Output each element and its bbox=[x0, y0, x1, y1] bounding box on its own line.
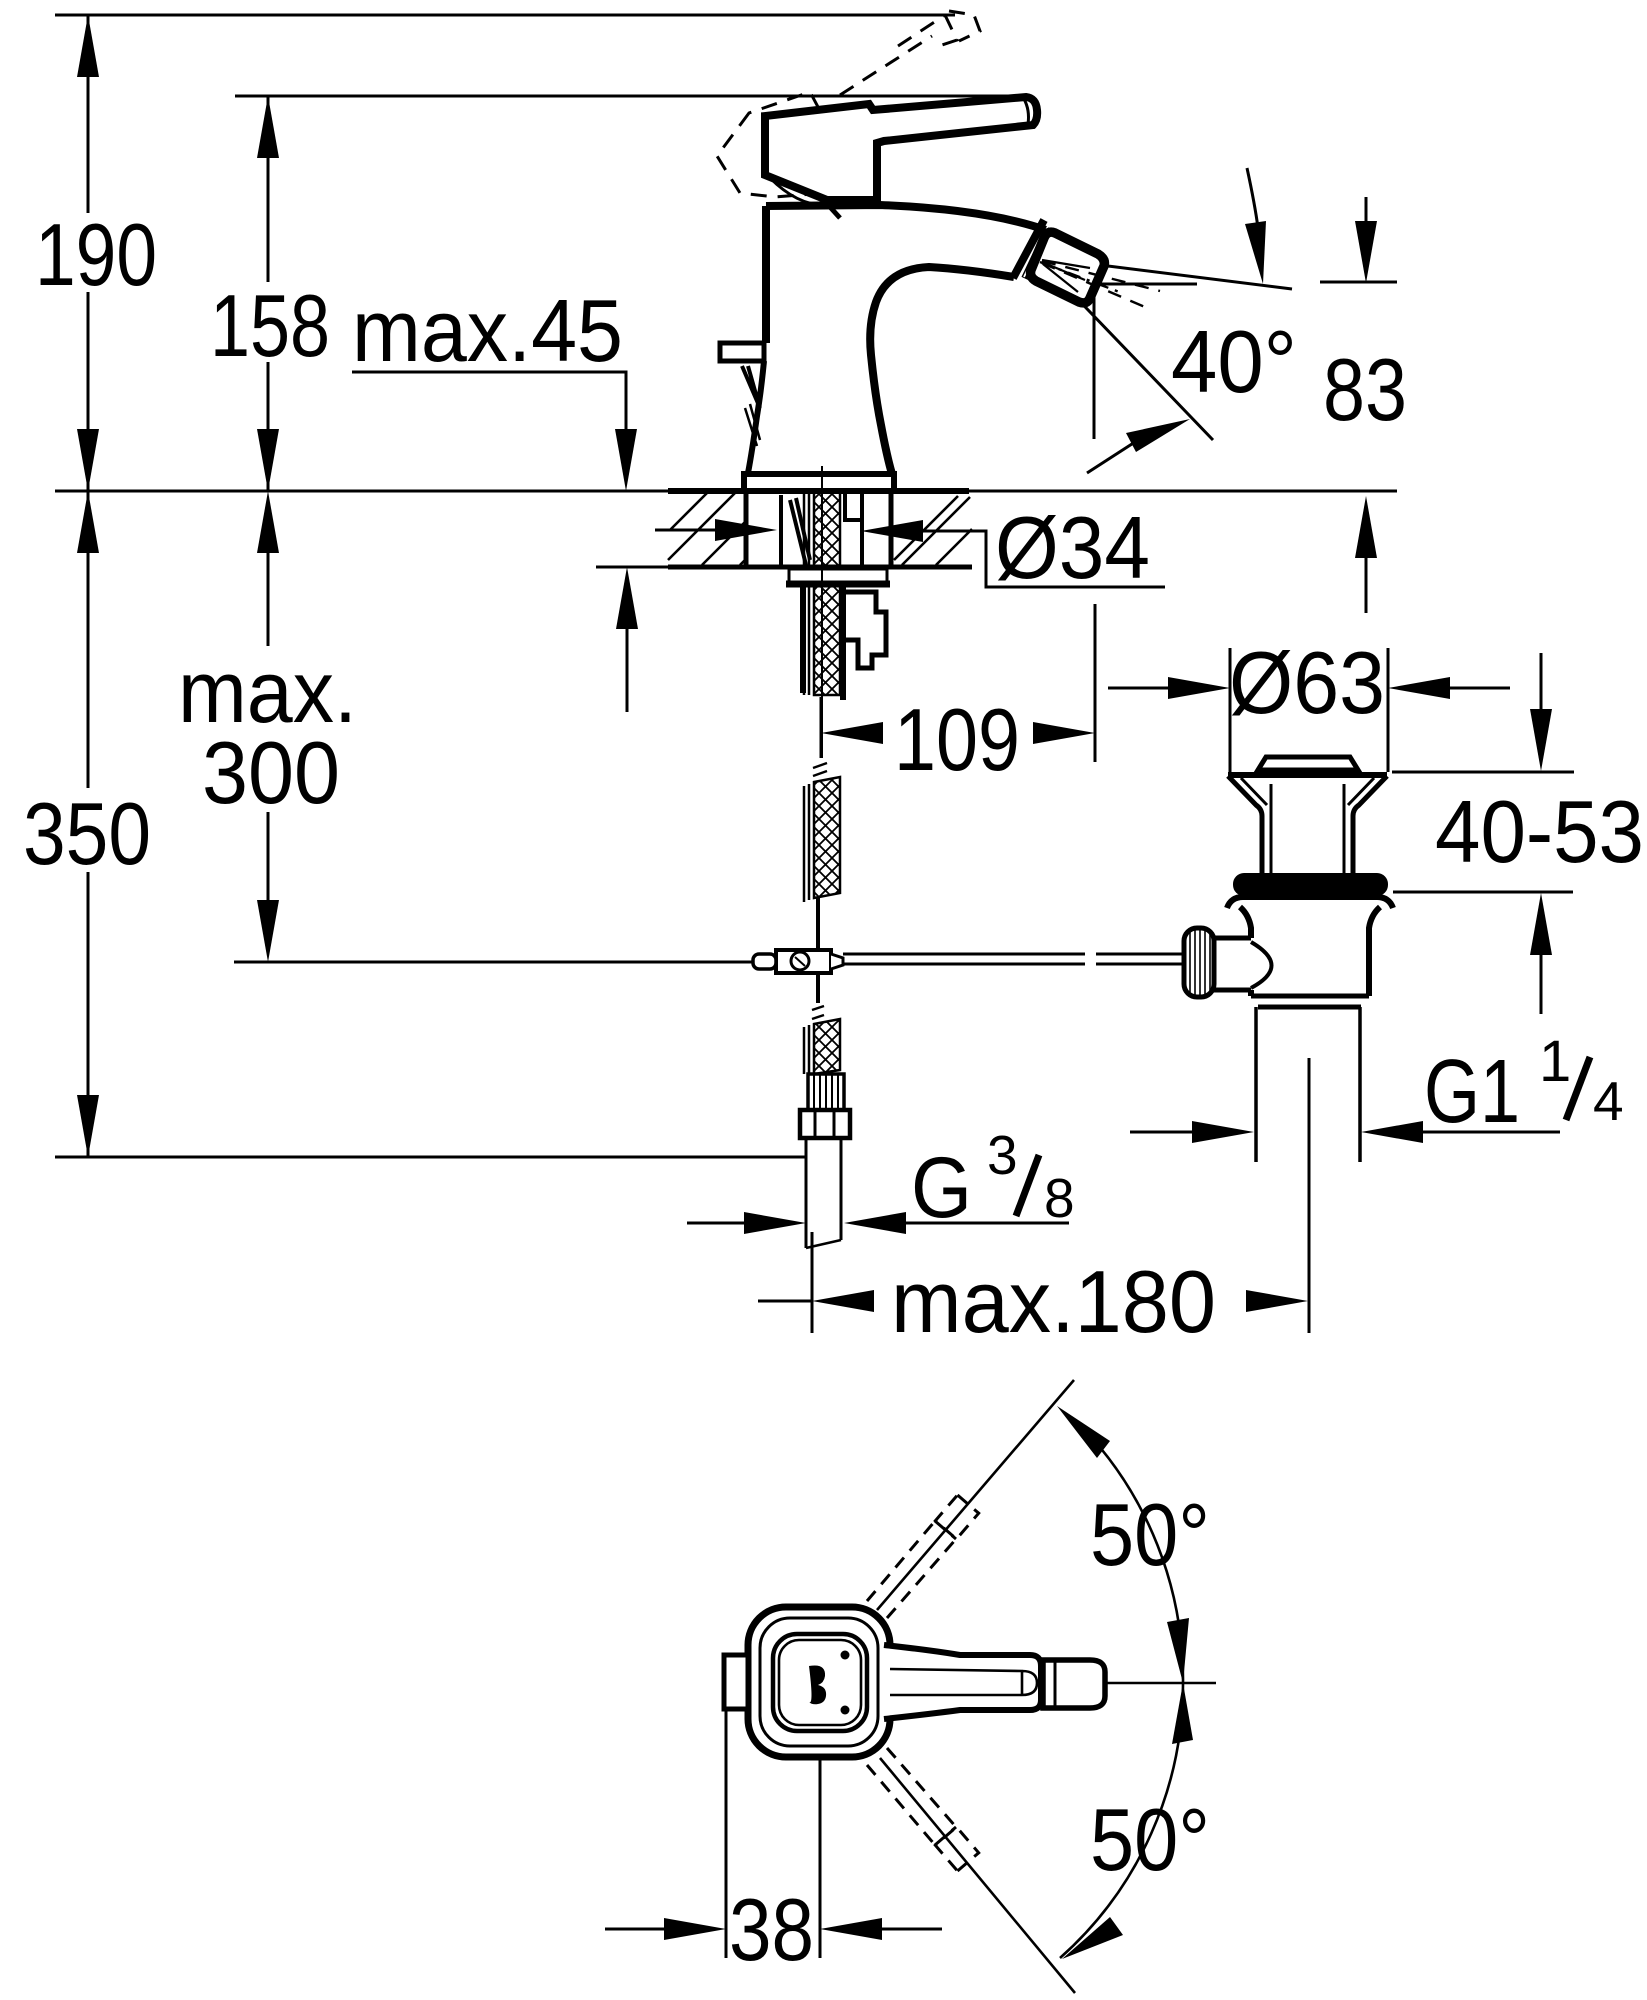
braided hose segment A bbox=[804, 784, 809, 902]
countertop hole right wall bbox=[889, 491, 894, 567]
dimension 40-53 bottom arrow bbox=[1530, 893, 1552, 955]
mousseur spray head block bbox=[1031, 232, 1105, 303]
dimension 350 arrow down bbox=[77, 1095, 99, 1157]
dimension O63 left tick bbox=[1229, 648, 1232, 772]
drain flange neck left bbox=[1228, 776, 1262, 874]
lever end cap inner line bbox=[1024, 99, 1029, 124]
hose tail bbox=[806, 1138, 841, 1248]
dimension 350 vertical line bbox=[87, 491, 90, 788]
dimension max300 arrow down bbox=[257, 900, 279, 962]
svg-text:38: 38 bbox=[729, 1880, 814, 1979]
dimension max300 arrow up at countertop bbox=[257, 491, 279, 553]
dimension max180 right tick (drain centerline) bbox=[1308, 1058, 1311, 1333]
dimension G38 right arrow bbox=[844, 1212, 906, 1234]
dimension 40-53 top arrow bbox=[1540, 653, 1543, 712]
mounting washer plate bbox=[789, 569, 887, 584]
clamp wedge below clip bbox=[742, 366, 760, 408]
dimension 38 right arrow bbox=[820, 1918, 882, 1940]
svg-text:158: 158 bbox=[210, 276, 330, 375]
svg-text:1: 1 bbox=[1539, 1029, 1571, 1094]
dimension max300 vertical line bbox=[267, 553, 270, 646]
top view: screw hole bottom bbox=[841, 1706, 850, 1715]
base flange bbox=[744, 474, 894, 491]
drain flange top bbox=[1228, 772, 1387, 778]
top view: dashed lever upper bbox=[867, 1495, 979, 1618]
top view: lever arm bbox=[884, 1645, 1041, 1719]
dimension 83 bottom arrow to countertop bbox=[1355, 496, 1377, 558]
faucet centerline below deck bbox=[821, 466, 823, 758]
svg-text:83: 83 bbox=[1323, 340, 1407, 439]
reference line L1 top of handle bbox=[55, 14, 955, 17]
top view: ring 2 bbox=[760, 1618, 878, 1746]
top view: lower 50deg line bbox=[880, 1758, 1075, 1993]
dimension G114 left arrow bbox=[1130, 1131, 1192, 1134]
spray axis vertical tick for 109 bbox=[1094, 604, 1097, 762]
clamp screws in hole bbox=[781, 495, 810, 565]
countertop hatching right of hole bbox=[894, 496, 972, 565]
spout end face bbox=[1013, 220, 1044, 278]
svg-text:G: G bbox=[911, 1140, 972, 1236]
top view: screw hole top bbox=[841, 1651, 850, 1660]
clamp left pin bbox=[753, 954, 776, 969]
dimension 158 vertical line bbox=[267, 96, 270, 282]
dimension 40-53 lower ref line bbox=[1393, 891, 1573, 894]
inner boss arc bbox=[1251, 942, 1272, 988]
dimension 83 top arrow on spray line bbox=[1365, 197, 1368, 230]
drain centerline bbox=[1308, 1058, 1311, 1232]
svg-text:G1: G1 bbox=[1424, 1042, 1520, 1142]
top view: dashed lever lower bbox=[867, 1748, 979, 1871]
40deg horizontal leg bbox=[1094, 283, 1197, 286]
top view: GROHE mark bbox=[809, 1665, 826, 1704]
dimension 38 left arrow bbox=[605, 1928, 664, 1931]
drain push cap bbox=[1258, 757, 1358, 770]
spray vertex fan (inside block) bbox=[1042, 260, 1090, 292]
dimension O34 right arrow and stepped leader bbox=[861, 520, 923, 542]
bowtie arrowhead below axis bbox=[1172, 1683, 1193, 1744]
svg-text:40°: 40° bbox=[1171, 312, 1297, 411]
dimension 158 arrow up bbox=[257, 96, 279, 158]
pop-up rod behind column bbox=[745, 404, 760, 446]
mousseur joint band bbox=[1026, 228, 1050, 279]
rod break marks above hose bbox=[813, 763, 827, 776]
drain body left edge bbox=[1240, 907, 1251, 996]
rod break marks bbox=[812, 1006, 824, 1019]
faucet body outline bbox=[766, 205, 1046, 230]
svg-text:190: 190 bbox=[35, 205, 157, 304]
drain flange neck right bbox=[1353, 776, 1387, 874]
countertop bottom surface line bbox=[596, 566, 668, 569]
svg-text:max.180: max.180 bbox=[891, 1252, 1216, 1351]
spout underside and column right edge bbox=[870, 267, 1014, 474]
dimension max45 underline and leader bbox=[352, 372, 626, 430]
handle body with lever (solid) bbox=[765, 97, 1037, 200]
dimension max180 right arrow bbox=[1246, 1290, 1308, 1312]
drain body bottom steps bbox=[1251, 996, 1369, 1007]
reference line max300 bottom (pop-up rod level) bbox=[234, 961, 753, 964]
svg-text:3: 3 bbox=[987, 1124, 1018, 1186]
svg-text:50°: 50° bbox=[1090, 1790, 1210, 1889]
shank tube walls below washer bbox=[803, 587, 843, 700]
countertop thickness arrow up below slab bbox=[616, 567, 638, 629]
top view: ring 3 bbox=[773, 1634, 867, 1731]
svg-text:40-53: 40-53 bbox=[1435, 782, 1644, 881]
dimension 109 right arrow at spray axis bbox=[1033, 722, 1095, 744]
svg-text:Ø34: Ø34 bbox=[995, 498, 1150, 597]
bottom reference line 350 bbox=[55, 1156, 806, 1159]
spray upper boundary sloped line bbox=[1044, 258, 1292, 289]
dimension 350 arrow up at countertop bbox=[77, 491, 99, 553]
dimension 109 left arrow at faucet axis bbox=[821, 722, 883, 744]
supply rod below shank bbox=[820, 697, 823, 758]
column left edge flare bbox=[748, 361, 764, 473]
threaded shank (braided pattern) bbox=[814, 491, 840, 695]
dashed handle lever (raised position) bbox=[840, 11, 980, 95]
joint band white slits bbox=[1024, 226, 1052, 279]
knob stem bbox=[1214, 938, 1251, 990]
dimension O63 right tick bbox=[1387, 648, 1390, 772]
40deg vertical leg bbox=[1093, 284, 1096, 439]
dimension 38 right tick bbox=[819, 1757, 822, 1958]
top view: spout stub left bbox=[724, 1655, 748, 1709]
top view: upper 50deg arc bbox=[1082, 1427, 1183, 1683]
braided hose segment B bbox=[804, 1025, 809, 1074]
dimension 83 tick on spray line bbox=[1320, 281, 1397, 284]
svg-text:109: 109 bbox=[894, 690, 1020, 789]
hose collar ridged bbox=[808, 1074, 844, 1110]
top view: upper 50deg line bbox=[877, 1380, 1074, 1610]
reference line L2 lever level bbox=[235, 95, 1008, 98]
body left edge bbox=[762, 206, 770, 343]
handle chin tick bbox=[820, 196, 840, 218]
knurled adjuster knob bbox=[1184, 928, 1214, 997]
40deg upper arc arrow bbox=[1247, 168, 1258, 228]
lower arc arrowhead at 50deg line bbox=[1062, 1917, 1123, 1959]
top view: lower 50deg arc bbox=[1060, 1683, 1183, 1958]
svg-text:max.45: max.45 bbox=[352, 281, 623, 380]
dimension 190 arrow down at countertop bbox=[77, 429, 99, 491]
countertop hatching left of hole bbox=[668, 491, 746, 565]
hole inner step right bbox=[845, 491, 862, 567]
drain neck inner lines bbox=[1271, 784, 1344, 874]
pop-up outlet bracket right of shank bbox=[846, 592, 886, 668]
cartridge dome arc under handle bbox=[770, 178, 826, 205]
dimension max45 arrow down to countertop bbox=[615, 429, 637, 491]
drain O-ring seal (black) bbox=[1233, 873, 1388, 896]
svg-text:350: 350 bbox=[23, 784, 151, 883]
rod clamp block bbox=[776, 950, 831, 973]
countertop hole left wall bbox=[744, 491, 749, 567]
dimension 190 vertical line bbox=[87, 15, 90, 213]
spray dash-dot centerline bbox=[1040, 262, 1122, 293]
lever arm inner lines bbox=[890, 1669, 1037, 1695]
dimension 38 left tick bbox=[725, 1709, 728, 1958]
dimension G114 right arrow bbox=[1361, 1121, 1423, 1143]
countertop slab top edge bold bbox=[668, 488, 969, 494]
svg-text:4: 4 bbox=[1593, 1070, 1624, 1132]
svg-text:8: 8 bbox=[1044, 1167, 1075, 1229]
svg-text:300: 300 bbox=[202, 723, 340, 822]
dimension 40-53 upper ref line bbox=[1392, 771, 1574, 774]
dimension max180 left tick bbox=[811, 1232, 814, 1333]
top view: horizontal axis line bbox=[1105, 1682, 1216, 1685]
dimension O34 left leader and arrow bbox=[655, 529, 716, 532]
shank tube left edges bbox=[804, 491, 809, 695]
40deg lower arc arrow bbox=[1087, 442, 1135, 473]
drain seal lower lip bbox=[1227, 897, 1393, 908]
dimension O63 right arrow bbox=[1388, 677, 1450, 699]
svg-text:Ø63: Ø63 bbox=[1229, 633, 1385, 732]
spray lower boundary 40deg line bbox=[1042, 262, 1213, 440]
upper arc arrowhead at 50deg line bbox=[1057, 1406, 1110, 1458]
dimension max180 left arrow bbox=[758, 1300, 812, 1303]
dashed handle body (raised position) bbox=[717, 92, 856, 197]
top view: handle escutcheon outer ring bbox=[748, 1607, 890, 1757]
drain funnel inner slants bbox=[1241, 778, 1374, 805]
svg-text:50°: 50° bbox=[1090, 1485, 1210, 1584]
dimension O63 left arrow bbox=[1108, 687, 1170, 690]
pop-up rod side clip bbox=[720, 343, 764, 361]
drain body right edge bbox=[1369, 907, 1380, 996]
bowtie arrowhead above axis bbox=[1167, 1618, 1189, 1683]
top view: lever end cylinder bbox=[1043, 1660, 1105, 1708]
dimension 190 arrow up bbox=[77, 15, 99, 77]
spray fan dashed lines bbox=[1042, 261, 1160, 291]
dimension 158 arrow down bbox=[257, 429, 279, 491]
clamp right cone bbox=[831, 954, 843, 969]
countertop top surface line bbox=[55, 490, 1397, 493]
pop-up vertical rod bbox=[816, 898, 820, 950]
horizontal pop-up rod to drain bbox=[843, 954, 1085, 964]
top view: ring 4 bbox=[779, 1640, 861, 1725]
hose hex nut bbox=[800, 1110, 850, 1138]
drain tailpipe bbox=[1256, 1007, 1360, 1162]
clamp screw circle bbox=[791, 952, 809, 970]
dimension G38 left arrow bbox=[687, 1222, 745, 1225]
